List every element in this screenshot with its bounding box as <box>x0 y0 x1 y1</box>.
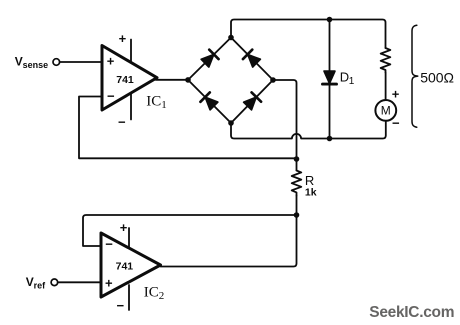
wire D1 branch vertical <box>329 20 331 139</box>
bridge diode upper-right <box>243 50 261 68</box>
node bridge top <box>228 35 234 41</box>
wire bridge bottom node to motor bottom with hop over right vertical <box>231 121 386 139</box>
resistor R 1k <box>292 171 302 196</box>
svg-text:+: + <box>105 275 113 290</box>
IC1 value 741 <box>116 74 134 86</box>
svg-text:−: − <box>117 298 125 313</box>
node R bottom junction <box>294 212 300 218</box>
IC1 noninverting input + symbol <box>107 53 115 68</box>
op-amp U1 IC1 triangle <box>102 46 157 111</box>
motor M <box>375 100 396 121</box>
brace 500 ohm <box>412 25 418 127</box>
watermark SeekIC.com <box>369 304 454 321</box>
wire Vref to IC2 + input <box>58 281 101 283</box>
node bottom rail D1 junction <box>327 136 333 142</box>
svg-text:1k: 1k <box>305 187 317 199</box>
svg-text:1: 1 <box>349 76 355 87</box>
label Vref <box>26 275 46 290</box>
node bridge left <box>185 77 191 83</box>
label D1 <box>340 70 355 88</box>
wire bridge top node to top rail and down to 500 ohm load <box>231 20 386 49</box>
wire bridge right node down through R to IC2 output <box>161 80 297 267</box>
wire Vsense to IC1 + input <box>60 61 102 63</box>
IC2 negative supply pin <box>128 285 130 310</box>
motor - polarity label <box>392 115 400 130</box>
op-amp U2 IC2 triangle <box>101 233 161 297</box>
svg-text:741: 741 <box>116 74 134 86</box>
motor + polarity label <box>392 87 400 102</box>
label IC1 <box>146 93 167 111</box>
IC2 positive supply + label <box>120 220 128 235</box>
wire load resistor to motor <box>385 73 387 101</box>
IC1 positive supply pin <box>130 40 132 62</box>
resistor 500 ohm load <box>381 48 391 73</box>
IC2 noninverting input + symbol <box>105 275 113 290</box>
terminal Vsense <box>53 59 60 66</box>
node bridge bottom <box>228 120 234 126</box>
IC1 positive supply + label <box>119 31 127 46</box>
svg-text:+: + <box>107 53 115 68</box>
svg-text:−: − <box>105 237 113 252</box>
bridge diode lower-right <box>243 92 261 110</box>
diode D1 <box>323 71 337 84</box>
svg-text:741: 741 <box>116 261 134 273</box>
IC2 inverting input - symbol <box>105 237 113 252</box>
svg-text:−: − <box>392 115 400 130</box>
svg-text:−: − <box>107 88 115 103</box>
svg-text:SeekIC.com: SeekIC.com <box>369 304 454 321</box>
IC1 negative supply pin <box>130 94 132 120</box>
svg-text:+: + <box>392 87 400 102</box>
bridge diode lower-left <box>200 92 218 110</box>
label Vsense <box>15 55 48 70</box>
bridge diode upper-left <box>200 50 218 68</box>
wire IC2 inverting feedback to node at R bottom <box>83 215 297 246</box>
svg-text:+: + <box>119 31 127 46</box>
wire IC1 output to bridge left node <box>156 79 189 81</box>
label R 1k <box>305 173 317 199</box>
svg-text:1: 1 <box>161 99 167 111</box>
IC2 negative supply - label <box>117 298 125 313</box>
svg-text:−: − <box>118 115 126 130</box>
diode bridge edges <box>188 38 273 124</box>
svg-text:+: + <box>120 220 128 235</box>
svg-text:500Ω: 500Ω <box>420 69 454 85</box>
node top rail D1 junction <box>327 17 333 23</box>
terminal Vref <box>51 279 58 286</box>
svg-text:ref: ref <box>34 280 47 290</box>
svg-text:sense: sense <box>23 60 49 70</box>
svg-text:IC: IC <box>146 93 161 109</box>
IC2 positive supply pin <box>128 228 130 249</box>
IC2 value 741 <box>116 261 134 273</box>
label IC2 <box>144 285 165 303</box>
wire IC1 inverting feedback to node at R top <box>79 97 295 159</box>
node R top junction <box>294 156 300 162</box>
IC1 inverting input - symbol <box>107 88 115 103</box>
svg-text:D: D <box>340 70 349 85</box>
svg-text:M: M <box>381 104 391 118</box>
label 500 ohm <box>420 69 454 85</box>
svg-text:IC: IC <box>144 285 159 301</box>
IC1 negative supply - label <box>118 115 126 130</box>
svg-text:2: 2 <box>159 290 165 302</box>
node bridge right <box>270 77 276 83</box>
